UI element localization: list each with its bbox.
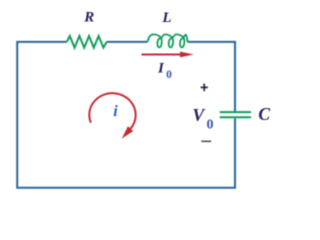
svg-text:0: 0 xyxy=(207,118,214,133)
svg-text:i: i xyxy=(113,103,118,120)
svg-text:R: R xyxy=(83,10,94,26)
svg-text:C: C xyxy=(258,104,270,124)
svg-text:L: L xyxy=(161,10,171,26)
svg-text:V: V xyxy=(193,105,206,125)
svg-text:I: I xyxy=(157,61,165,77)
svg-text:0: 0 xyxy=(166,69,172,81)
